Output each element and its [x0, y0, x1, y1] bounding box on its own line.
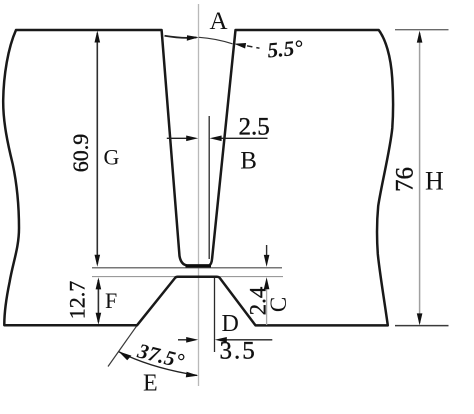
svg-text:H: H — [425, 167, 444, 196]
svg-text:D: D — [222, 311, 239, 337]
svg-text:60.9: 60.9 — [68, 134, 93, 173]
svg-text:76: 76 — [392, 167, 419, 192]
svg-text:A: A — [210, 8, 228, 35]
svg-text:E: E — [143, 370, 158, 396]
svg-text:C: C — [266, 297, 291, 312]
svg-text:B: B — [240, 148, 257, 175]
svg-text:G: G — [104, 145, 120, 170]
svg-text:5.5°: 5.5° — [266, 35, 304, 62]
svg-text:F: F — [105, 288, 117, 313]
svg-text:3.5: 3.5 — [220, 338, 257, 365]
svg-text:2.5: 2.5 — [239, 114, 270, 141]
svg-text:12.7: 12.7 — [65, 281, 90, 320]
